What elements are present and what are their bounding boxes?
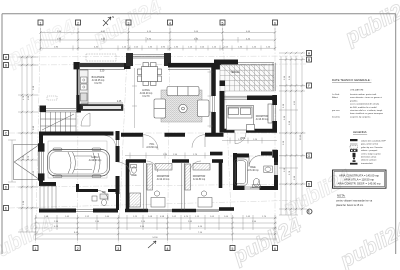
svg-text:3: 3	[117, 247, 119, 251]
svg-text:1.45: 1.45	[117, 101, 122, 103]
svg-text:zona aferenta - teren cu gazon: zona aferenta - teren cu gazon si	[350, 96, 382, 99]
svg-text:locuinta:: locuinta:	[332, 115, 341, 118]
svg-text:6: 6	[274, 21, 276, 25]
svg-text:h=2.70: h=2.70	[142, 96, 150, 98]
svg-text:centru viitoarei mansardari se: centru viitoarei mansardari se va	[336, 200, 373, 203]
svg-text:h=2.70: h=2.70	[94, 83, 102, 85]
svg-text:ARIA CONSTR. DESF. = 145.00 m: ARIA CONSTR. DESF. = 145.00 mp	[337, 182, 381, 186]
svg-text:2: 2	[77, 247, 79, 251]
svg-text:gradina: gradina	[350, 99, 358, 102]
svg-text:DATE TEHNICO GENERALE :: DATE TEHNICO GENERALE :	[332, 78, 372, 82]
svg-text:ARIA UTILA = 118.50 mp: ARIA UTILA = 118.50 mp	[344, 178, 374, 182]
svg-text:locuinta unifam. parter inalt: locuinta unifam. parter inalt	[350, 93, 377, 96]
svg-text:Bilant:: Bilant:	[332, 96, 338, 99]
svg-text:14.90: 14.90	[152, 237, 158, 239]
svg-text:acoperis tip sarpanta: acoperis tip sarpanta	[350, 115, 371, 118]
svg-text:placa fier beton la 15 cm: placa fier beton la 15 cm	[336, 204, 363, 207]
svg-text:G: G	[308, 154, 311, 158]
svg-text:3: 3	[128, 21, 130, 25]
svg-text:5: 5	[232, 247, 234, 251]
svg-text:LEGENDA:: LEGENDA:	[353, 130, 367, 134]
svg-text:golari tip usa / ferestre: golari tip usa / ferestre	[361, 146, 383, 149]
svg-text:6: 6	[274, 247, 276, 251]
svg-text:A=20.90 mp: A=20.90 mp	[89, 159, 102, 162]
svg-text:N: N	[112, 15, 114, 19]
svg-text:par usa:: par usa:	[332, 109, 340, 112]
svg-text:zidarie - parapeti: zidarie - parapeti	[361, 149, 378, 152]
svg-text:A=13.30 mp: A=13.30 mp	[256, 118, 269, 121]
svg-text:lemn stratificat cu geam termo: lemn stratificat cu geam termopan	[350, 112, 384, 115]
svg-text:3.20: 3.20	[100, 71, 105, 73]
svg-text:zidarie din caramida GVP: zidarie din caramida GVP	[361, 140, 386, 143]
svg-text:F: F	[308, 84, 310, 88]
svg-text:obiecte sanitare: obiecte sanitare	[361, 159, 377, 162]
svg-text:GARAJ: GARAJ	[91, 156, 99, 159]
svg-text:gips-carton armat: gips-carton armat	[361, 143, 378, 146]
svg-text:5: 5	[222, 21, 224, 25]
svg-text:La Sud:: La Sud:	[332, 94, 340, 96]
svg-text:2: 2	[77, 21, 79, 25]
svg-text:NOTA:: NOTA:	[337, 194, 346, 198]
svg-text:de N-E, mobilier fix si mobil: de N-E, mobilier fix si mobil	[350, 106, 377, 109]
svg-text:structura din b.a. si zidarie,: structura din b.a. si zidarie, tampl.	[350, 109, 383, 112]
svg-text:A=12.10 mp: A=12.10 mp	[157, 178, 170, 181]
svg-text:WC: WC	[102, 192, 106, 194]
svg-text:DORMITOR: DORMITOR	[157, 176, 170, 178]
svg-text:termoizolatii: termoizolatii	[361, 162, 373, 165]
svg-text:10.30: 10.30	[300, 134, 302, 140]
svg-text:din beton armat: din beton armat	[361, 156, 377, 159]
svg-text:acces auto/pietonal din strada: acces auto/pietonal din strada	[350, 103, 380, 106]
svg-text:BAIE: BAIE	[250, 166, 256, 169]
svg-text:HOL: HOL	[150, 144, 155, 146]
svg-text:UTILIZATORI:: UTILIZATORI:	[350, 89, 364, 92]
svg-text:A=11.80 mp: A=11.80 mp	[193, 178, 206, 181]
svg-text:centri, stalpi si grinzi: centri, stalpi si grinzi	[361, 152, 381, 155]
svg-text:4: 4	[169, 21, 171, 25]
svg-text:DORMITOR: DORMITOR	[193, 176, 206, 178]
svg-text:4: 4	[167, 247, 169, 251]
svg-text:ARIA CONSTRUITA = 145.00 mp: ARIA CONSTRUITA = 145.00 mp	[339, 174, 379, 178]
svg-text:1: 1	[35, 247, 37, 251]
svg-text:A=10.45 mp: A=10.45 mp	[92, 79, 105, 82]
svg-text:TERASA: TERASA	[230, 71, 240, 74]
svg-text:BUCATARIE: BUCATARIE	[92, 76, 105, 79]
svg-text:LIVING: LIVING	[142, 90, 150, 92]
svg-text:A=24.20 mp: A=24.20 mp	[140, 92, 153, 95]
svg-text:1: 1	[40, 21, 42, 25]
svg-text:DORMITOR: DORMITOR	[256, 116, 269, 118]
svg-text:A=9.60 mp: A=9.60 mp	[146, 146, 158, 149]
svg-text:BAIE: BAIE	[131, 174, 137, 177]
svg-text:A=6.40 mp: A=6.40 mp	[247, 169, 259, 172]
